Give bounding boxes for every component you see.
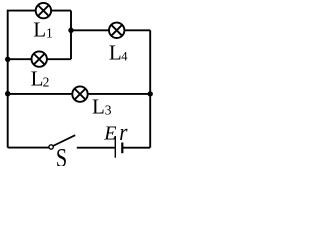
svg-text:L: L [109,40,122,64]
wire middle vertical x=71 [70,11,72,60]
lamp L1 [36,3,51,18]
svg-text:L: L [33,17,46,41]
svg-text:2: 2 [43,75,50,90]
svg-text:r: r [119,119,127,146]
lamp L3 [72,86,87,101]
node D junction dot [148,91,153,96]
switch S [49,135,75,149]
wire bottom row left of switch [8,147,49,149]
wire L4 row left [71,29,109,31]
svg-text:L: L [31,67,44,91]
wire right vertical [149,30,151,147]
wire left vertical [7,11,9,148]
wire L2 row right [47,58,71,60]
svg-text:4: 4 [121,50,128,64]
wire bottom row between switch and battery [77,147,115,149]
svg-text:L: L [92,94,105,118]
lamp L2 [32,51,47,66]
node C junction dot [5,91,10,96]
wire top row right of L1 [51,10,71,12]
node A junction dot [68,28,73,33]
svg-text:S: S [56,144,67,166]
wire L3 row right [88,93,151,95]
wire L4 row right [124,29,150,31]
lamp L4 [109,23,124,38]
svg-text:E: E [103,123,116,145]
wire top row left of L1 [7,10,36,12]
svg-text:3: 3 [105,103,112,118]
wire L3 row left [8,93,73,95]
svg-text:1: 1 [46,25,53,40]
node B junction dot [5,57,10,62]
wire bottom row right of battery [123,147,151,149]
battery E r [115,136,122,158]
wire L2 row left [8,58,32,60]
